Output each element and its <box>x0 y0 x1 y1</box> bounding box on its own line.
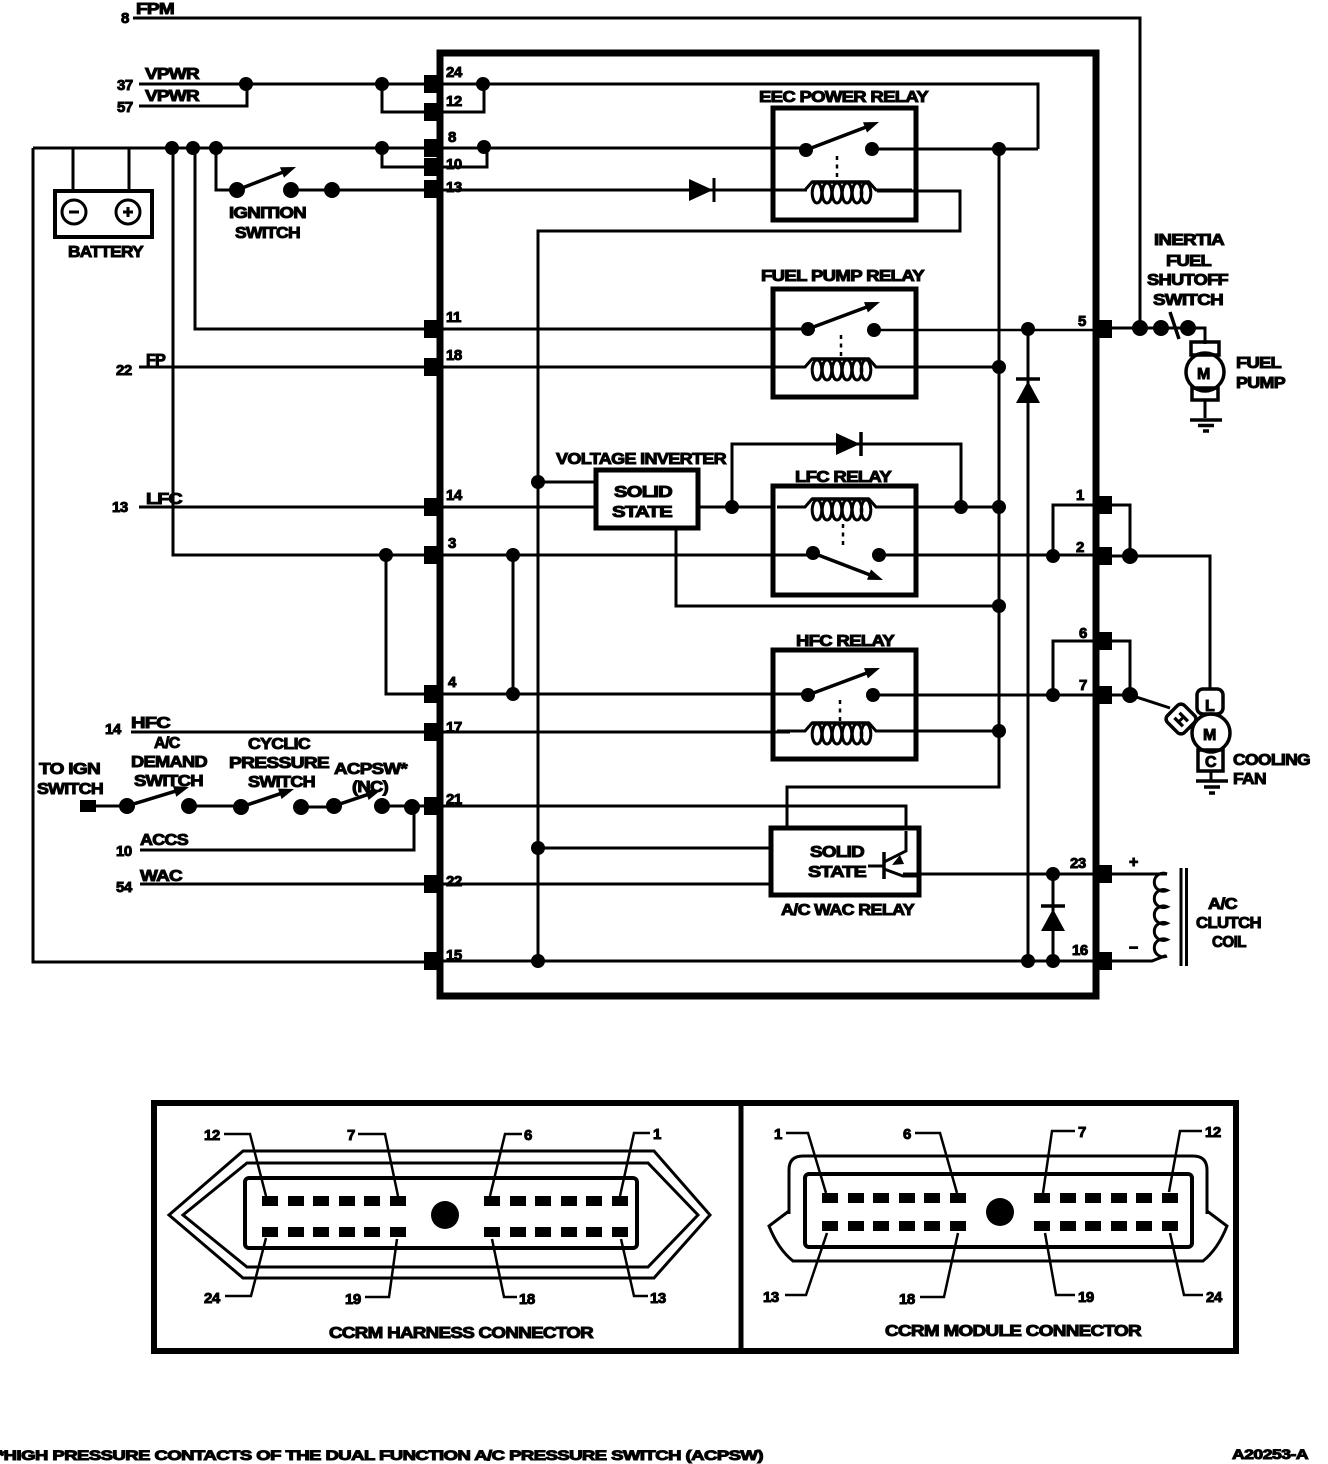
svg-text:HFC RELAY: HFC RELAY <box>796 633 895 650</box>
svg-text:FAN: FAN <box>1233 771 1266 788</box>
ignition switch S1 <box>216 148 441 242</box>
FUEL PUMP relay K2 <box>761 268 925 397</box>
EEC power relay K1 <box>759 89 929 220</box>
wire VPWR 57 joining VPWR 37 <box>139 84 247 106</box>
voltage inverter U1 <box>596 470 698 528</box>
outside jumper pin 1 to pin 2 <box>1112 505 1130 556</box>
label A/C CLUTCH COIL <box>1196 896 1261 951</box>
svg-text:24: 24 <box>1206 1289 1223 1306</box>
svg-text:PUMP: PUMP <box>1236 375 1286 392</box>
wire power net into WAC relay base <box>538 847 771 850</box>
harness connector pins row 1 <box>262 1196 628 1206</box>
HFC relay K4 <box>773 633 916 759</box>
battery B+ wire to pin 8 <box>33 147 806 150</box>
junction dot jumper 6-7 <box>1046 688 1060 702</box>
wire FP switch output to pin 5 <box>874 329 1096 332</box>
svg-text:TO IGN: TO IGN <box>39 761 100 778</box>
svg-text:COOLING: COOLING <box>1233 752 1310 769</box>
pin 14 terminal <box>424 487 463 516</box>
connector section divider <box>739 1103 744 1351</box>
wire inverter output to LFC coil <box>698 506 773 509</box>
svg-text:SWITCH: SWITCH <box>248 774 315 791</box>
label COOLING FAN <box>1233 752 1310 788</box>
svg-text:10: 10 <box>446 156 462 173</box>
label INERTIA FUEL SHUTOFF SWITCH <box>1147 232 1229 309</box>
label ACCS / pin 10 <box>116 832 189 860</box>
label HFC / pin 14 <box>105 715 171 738</box>
module connector pins row 1 <box>822 1193 1178 1203</box>
pin 15 terminal <box>424 947 462 970</box>
module pin label 13 <box>763 1233 827 1306</box>
svg-text:M: M <box>1203 727 1216 744</box>
wire FP to pin 18 and relay coil <box>139 366 790 369</box>
wire battery net down to pin 3 row <box>173 148 441 555</box>
wire LFC switch output to pin 2 <box>879 554 1096 557</box>
transistor Q1 in WAC relay <box>868 831 919 879</box>
junction dots relay power net <box>992 142 1006 738</box>
svg-text:23: 23 <box>1070 855 1086 872</box>
module pin label 6 <box>903 1126 957 1193</box>
svg-text:LFC: LFC <box>146 491 183 508</box>
svg-text:22: 22 <box>446 873 462 890</box>
wire WAC to pin 22 and relay <box>140 883 771 886</box>
svg-text:1: 1 <box>1076 487 1084 504</box>
module pin label 19 <box>1045 1233 1094 1306</box>
svg-text:13: 13 <box>763 1289 779 1306</box>
svg-text:FUEL: FUEL <box>1166 253 1212 270</box>
A/C switch chain to pin 21 <box>80 786 441 815</box>
svg-text:SWITCH: SWITCH <box>37 781 103 798</box>
CCRM harness connector J1 shell <box>169 1151 710 1278</box>
pin 10 terminal <box>424 156 462 176</box>
svg-text:12: 12 <box>446 93 462 110</box>
wire HFC to pin 17 and relay coil <box>131 731 790 734</box>
svg-text:SHUTOFF: SHUTOFF <box>1147 272 1229 289</box>
diode CR3 LFC relay <box>836 432 861 456</box>
junction dots VPWR net <box>239 77 490 91</box>
wire pin 10 inner bracket to pin 8 <box>441 148 487 167</box>
svg-text:A/C: A/C <box>1208 896 1238 913</box>
wire VPWR 37 to pin 24 and down to EEC switch feed <box>139 84 1038 149</box>
battery B1 <box>55 148 152 261</box>
junction dot FP coil return <box>992 360 1006 374</box>
svg-text:FPM: FPM <box>136 1 174 18</box>
svg-text:10: 10 <box>116 843 132 860</box>
module connector pins row 2 <box>822 1221 1178 1231</box>
junction dot outside jumper 6-7 <box>1122 687 1138 703</box>
label LFC / pin 13 <box>112 491 183 516</box>
pin 17 terminal <box>424 719 462 741</box>
diode CR4 A/C clutch <box>1041 906 1065 931</box>
pin 7 terminal <box>1079 677 1112 704</box>
svg-text:6: 6 <box>903 1126 911 1143</box>
svg-text:C: C <box>1205 754 1217 771</box>
svg-text:COIL: COIL <box>1212 934 1247 951</box>
svg-text:A/C WAC RELAY: A/C WAC RELAY <box>781 902 915 919</box>
wire HFC switch output to pin 7 <box>873 694 1096 697</box>
LFC relay K3 <box>773 469 916 595</box>
svg-text:8: 8 <box>121 10 129 27</box>
svg-text:37: 37 <box>117 77 133 94</box>
svg-text:24: 24 <box>446 64 463 81</box>
harness connector pins row 2 <box>262 1227 628 1237</box>
svg-text:+: + <box>1129 854 1138 871</box>
label FUEL PUMP <box>1236 355 1286 392</box>
wire pin 2 to cooling fan low <box>1112 556 1210 688</box>
pin 24 terminal <box>424 64 463 93</box>
svg-text:HFC: HFC <box>131 715 171 732</box>
wire EEC coil return to solid state net <box>538 191 960 961</box>
svg-text:VPWR: VPWR <box>145 88 200 105</box>
wire FP coil return to relay power net <box>877 366 999 369</box>
svg-text:19: 19 <box>1078 1289 1094 1306</box>
svg-text:DEMAND: DEMAND <box>131 754 207 771</box>
pin 22 terminal <box>424 873 462 893</box>
svg-text:STATE: STATE <box>808 864 867 881</box>
module connector index post <box>986 1198 1014 1226</box>
svg-text:6: 6 <box>524 1127 532 1144</box>
harness pin label 12 <box>204 1127 266 1196</box>
label TO IGN SWITCH <box>37 761 103 798</box>
svg-text:FUEL: FUEL <box>1236 355 1282 372</box>
svg-text:18: 18 <box>446 347 462 364</box>
junction dots ground row <box>531 954 1060 968</box>
harness pin label 18 <box>492 1239 535 1308</box>
svg-text:SOLID: SOLID <box>614 484 672 501</box>
svg-text:SWITCH: SWITCH <box>134 773 203 790</box>
harness pin label 6 <box>490 1127 532 1196</box>
diode CR1 on pin 13 wire <box>689 178 714 202</box>
wire pin 23 to clutch coil + <box>1112 873 1167 876</box>
svg-text:−: − <box>1129 940 1138 957</box>
relay power net vertical <box>787 149 999 830</box>
junction dot inverter input <box>531 475 545 489</box>
svg-text:13: 13 <box>650 1290 666 1307</box>
outside jumper pin 6 to pin 7 <box>1112 641 1130 695</box>
svg-text:BATTERY: BATTERY <box>68 244 144 261</box>
label ACPSW* (NC) <box>334 761 409 796</box>
pin 12 terminal <box>424 93 462 121</box>
svg-text:18: 18 <box>899 1291 915 1308</box>
pin 13 terminal <box>424 179 462 198</box>
svg-text:A/C: A/C <box>154 735 181 752</box>
junction dot inverter output <box>725 500 739 514</box>
jumper pins 6-7 inside module <box>1053 641 1096 695</box>
wire pin 3 row into LFC switch <box>441 554 813 557</box>
svg-text:57: 57 <box>117 99 133 116</box>
svg-text:M: M <box>1197 366 1210 383</box>
svg-text:54: 54 <box>116 879 133 896</box>
A/C WAC solid state relay U2 <box>771 828 919 919</box>
wire pin 5 to fuel pump <box>1112 328 1205 344</box>
wire HFC coil return to power net <box>877 730 999 733</box>
harness pin label 1 <box>620 1126 661 1196</box>
svg-text:PRESSURE: PRESSURE <box>229 755 330 772</box>
svg-text:ACPSW*: ACPSW* <box>334 761 409 778</box>
svg-text:CYCLIC: CYCLIC <box>248 736 311 753</box>
module pin label 18 <box>899 1233 958 1308</box>
inertia fuel shutoff switch S2 <box>1132 312 1196 339</box>
svg-text:13: 13 <box>112 499 128 516</box>
junction dot power net WAC <box>531 841 545 855</box>
label WAC / pin 54 <box>116 868 183 896</box>
wire outer left ground return to pin 15 <box>33 148 424 962</box>
svg-text:7: 7 <box>1078 1124 1086 1141</box>
svg-text:7: 7 <box>1079 677 1087 694</box>
wire pin 13 to EEC coil <box>441 189 807 192</box>
svg-text:19: 19 <box>345 1291 361 1308</box>
module pin label 1 <box>774 1126 826 1193</box>
pin 5 terminal <box>1078 313 1112 338</box>
svg-text:*HIGH PRESSURE CONTACTS OF THE: *HIGH PRESSURE CONTACTS OF THE DUAL FUNC… <box>0 1447 763 1463</box>
svg-text:CLUTCH: CLUTCH <box>1196 915 1261 932</box>
svg-text:3: 3 <box>448 535 456 552</box>
junction dot jumper 1-2 <box>1046 549 1060 563</box>
svg-text:CCRM HARNESS CONNECTOR: CCRM HARNESS CONNECTOR <box>329 1325 594 1342</box>
pin 18 terminal <box>424 347 462 376</box>
pin 6 terminal <box>1079 625 1112 650</box>
svg-text:VOLTAGE INVERTER: VOLTAGE INVERTER <box>556 451 727 468</box>
svg-text:IGNITION: IGNITION <box>229 205 306 222</box>
junction dot LFC diode return <box>954 500 968 514</box>
svg-text:12: 12 <box>1205 1124 1221 1141</box>
svg-text:14: 14 <box>446 487 463 504</box>
ground cooling fan <box>1196 781 1228 793</box>
svg-text:16: 16 <box>1072 942 1088 959</box>
svg-text:2: 2 <box>1076 539 1084 556</box>
A/C clutch coil L1 <box>1129 854 1187 966</box>
module pin label 24 <box>1170 1233 1223 1306</box>
harness pin label 19 <box>345 1239 397 1308</box>
harness connector index post <box>431 1201 459 1229</box>
svg-text:FUEL PUMP RELAY: FUEL PUMP RELAY <box>761 268 925 285</box>
svg-text:1: 1 <box>653 1126 661 1143</box>
svg-text:5: 5 <box>1078 313 1086 330</box>
junction dot pin 23 branch <box>1046 867 1060 881</box>
fuel pump branch with flyback diode vertical <box>1027 329 1030 961</box>
svg-text:12: 12 <box>204 1127 220 1144</box>
pin 16 terminal <box>1072 942 1112 970</box>
module pin label 12 <box>1169 1124 1221 1192</box>
wire EEC switch output row <box>872 148 1038 151</box>
svg-text:LFC RELAY: LFC RELAY <box>795 469 892 486</box>
CCRM module outline <box>440 53 1096 996</box>
svg-text:22: 22 <box>116 362 132 379</box>
module pin label 7 <box>1043 1124 1086 1193</box>
wire WAC emitter to pin 23 <box>903 873 1096 876</box>
wire FPM from pin 8 label to inertia switch node <box>133 18 1140 329</box>
wire pin 15 to pin 16 ground row <box>424 960 1096 963</box>
svg-text:INERTIA: INERTIA <box>1154 232 1225 249</box>
wire LFC to pin 14 and voltage inverter <box>139 506 596 509</box>
svg-text:ACCS: ACCS <box>140 832 189 849</box>
wire pin 3 ladder to pin 4 <box>379 548 808 701</box>
svg-text:A20253-A: A20253-A <box>1232 1446 1308 1462</box>
svg-text:8: 8 <box>448 129 456 146</box>
label A/C DEMAND SWITCH <box>131 735 207 790</box>
svg-text:EEC POWER RELAY: EEC POWER RELAY <box>759 89 929 106</box>
svg-text:SWITCH: SWITCH <box>1153 292 1223 309</box>
pin 3 terminal <box>424 535 456 564</box>
svg-text:1: 1 <box>774 1126 782 1143</box>
label VPWR / pin 57 <box>117 88 200 116</box>
jumper pins 1-2 inside module <box>1053 505 1096 556</box>
wire battery net down to pin 11 row <box>195 148 806 329</box>
wire pin 10 feed from battery net <box>382 148 441 167</box>
wire inverter bottom output to power net <box>676 528 999 606</box>
pin 1 terminal <box>1076 487 1112 514</box>
pin 4 terminal <box>424 674 457 703</box>
svg-text:24: 24 <box>204 1290 221 1307</box>
harness pin label 7 <box>347 1127 398 1196</box>
svg-text:STATE: STATE <box>612 504 673 521</box>
label FPM / pin 8 <box>121 1 174 27</box>
svg-text:4: 4 <box>448 674 457 691</box>
CCRM module connector J2 shell <box>769 1156 1227 1261</box>
pin 11 terminal <box>424 309 461 338</box>
junction dots fuel pump branch <box>1021 322 1035 968</box>
wire pin 12 inner bracket to pin 24 <box>441 84 484 112</box>
junction dot outside jumper 1-2 <box>1122 548 1138 564</box>
svg-text:6: 6 <box>1079 625 1087 642</box>
wire pin 12 feed from VPWR node <box>382 84 441 112</box>
wire ACCS joining pin 21 wire <box>140 807 414 850</box>
svg-text:CCRM MODULE CONNECTOR: CCRM MODULE CONNECTOR <box>885 1323 1142 1340</box>
svg-text:SWITCH: SWITCH <box>235 225 300 242</box>
svg-text:18: 18 <box>519 1291 535 1308</box>
wire LFC coil return to power net <box>877 506 999 509</box>
label VPWR / pin 37 <box>117 66 200 94</box>
fuel pump motor M1 <box>1186 342 1224 418</box>
label CYCLIC PRESSURE SWITCH <box>229 736 330 791</box>
pin 23 terminal <box>1070 855 1112 883</box>
diode CR2 fuel pump relay <box>1016 379 1040 403</box>
svg-text:11: 11 <box>446 309 461 326</box>
harness pin label 13 <box>621 1239 666 1307</box>
connector section frame <box>154 1103 1236 1351</box>
cooling fan motor M2 <box>1164 689 1230 780</box>
wire pin 16 to clutch coil - <box>1112 956 1166 962</box>
svg-text:SOLID: SOLID <box>810 844 864 861</box>
wire pin 7 to cooling fan high <box>1112 695 1170 708</box>
label FP / pin 22 <box>116 352 166 379</box>
svg-text:7: 7 <box>347 1127 355 1144</box>
svg-text:14: 14 <box>105 721 122 738</box>
pin 8 terminal <box>424 129 456 157</box>
svg-text:VPWR: VPWR <box>145 66 200 83</box>
svg-text:13: 13 <box>446 179 462 196</box>
svg-text:WAC: WAC <box>140 868 183 885</box>
junction dots battery net <box>165 140 491 155</box>
A/C clutch flyback diode branch <box>1052 874 1055 961</box>
ground fuel pump <box>1190 420 1222 431</box>
pin 2 terminal <box>1076 539 1112 565</box>
harness pin label 24 <box>204 1238 266 1307</box>
wire pin 21 row to WAC relay collector <box>441 806 906 830</box>
wire inverter input from power net <box>538 481 596 484</box>
LFC relay coil bypass diode branch <box>732 444 961 507</box>
pin 21 terminal <box>424 791 462 815</box>
